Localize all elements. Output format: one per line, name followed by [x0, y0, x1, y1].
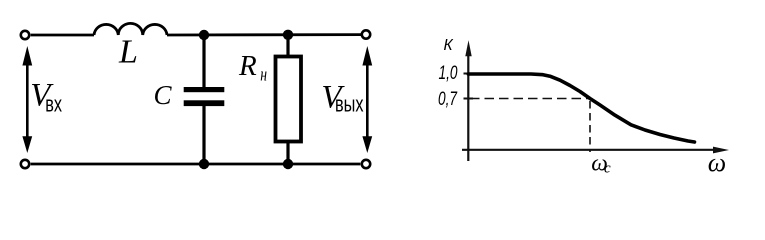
wire resistor bottom lead [286, 141, 289, 164]
svg-text:К: К [444, 37, 454, 54]
junction dot bottom resistor node [283, 159, 293, 169]
input voltage arrow Vвх (double-headed) [22, 46, 32, 153]
svg-text:н: н [260, 63, 267, 85]
label 1,0 [439, 62, 459, 84]
terminal top-right [362, 30, 370, 38]
svg-text:R: R [238, 50, 257, 82]
svg-text:c: c [604, 160, 611, 176]
svg-text:ω: ω [708, 148, 726, 177]
frequency response curve [468, 74, 694, 142]
label omega_c [591, 150, 611, 176]
graph omega axis (horizontal) with arrowhead [462, 147, 729, 154]
dashed vertical line at omega_c [589, 101, 591, 152]
resistor Rн body [276, 57, 302, 142]
wire top-middle segment [167, 33, 361, 36]
svg-text:C: C [154, 80, 173, 110]
terminal bottom-left [21, 160, 29, 168]
inductor L [94, 23, 167, 35]
wire resistor top lead [286, 35, 289, 55]
wire top-left segment [31, 34, 94, 37]
svg-text:0,7: 0,7 [438, 88, 458, 110]
label K [444, 37, 454, 54]
label R with subscript н [238, 50, 267, 85]
label Vвх [30, 78, 62, 117]
graph K axis (vertical) with arrowhead [465, 40, 471, 161]
svg-text:1,0: 1,0 [439, 62, 459, 84]
wire capacitor top lead [202, 35, 205, 87]
terminal top-left [21, 31, 29, 39]
capacitor C top plate [184, 87, 225, 92]
wire capacitor bottom lead [202, 106, 205, 164]
svg-text:вх: вх [45, 92, 62, 117]
axis tick at 1,0 level [464, 73, 474, 75]
wire bottom rail [31, 163, 361, 166]
junction dot top capacitor node [199, 30, 209, 40]
label C [154, 80, 173, 110]
label L [118, 33, 138, 70]
label 0,7 [438, 88, 458, 110]
junction dot top resistor node [283, 30, 293, 40]
dashed horizontal line at 0.7 level [470, 98, 588, 100]
terminal bottom-right [362, 160, 370, 168]
axis tick at 0,7 level [464, 98, 474, 100]
label Vвых [321, 80, 363, 117]
capacitor C bottom plate [184, 100, 225, 106]
svg-text:вых: вых [335, 92, 364, 117]
junction dot bottom capacitor node [199, 159, 209, 169]
output voltage arrow Vвых (double-headed) [362, 46, 372, 153]
label omega [708, 148, 726, 177]
svg-text:L: L [118, 33, 138, 70]
